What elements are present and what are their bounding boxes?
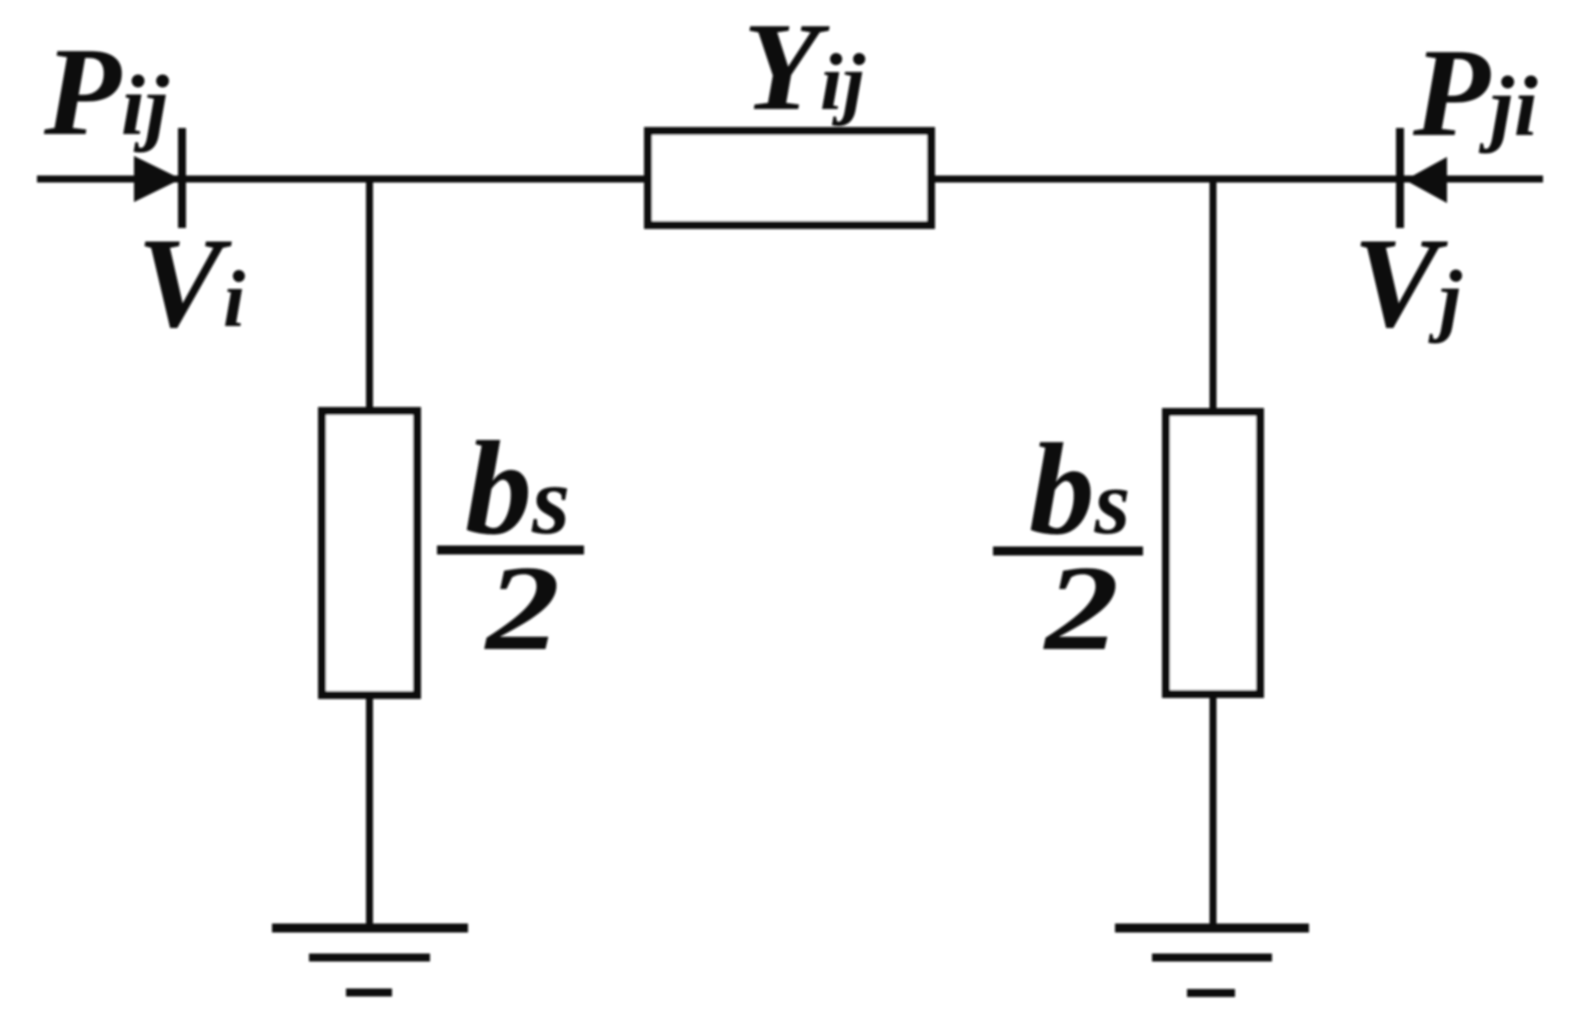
ground right <box>1115 928 1309 993</box>
wire: right shunt branch upper segment <box>1210 179 1217 412</box>
wire: left shunt branch upper segment <box>366 179 373 411</box>
capacitor bs/2 right: shunt susceptance rectangle <box>1166 412 1260 694</box>
node Vj: bus tick bar (right) <box>1396 128 1404 228</box>
admittance Yij: series branch rectangle <box>648 131 931 225</box>
wire: left shunt branch lower segment <box>366 695 373 928</box>
label bs/2 right: fraction bar <box>993 547 1143 556</box>
wire: right shunt branch lower segment <box>1210 694 1217 928</box>
wire: top horizontal line from bus i to bus j <box>37 176 1543 183</box>
node Vi: bus tick bar (left) <box>178 128 186 228</box>
svg-text:2: 2 <box>1043 541 1119 676</box>
label bs/2 left: fraction bar <box>437 546 584 555</box>
ground left <box>272 928 468 993</box>
svg-text:2: 2 <box>484 541 560 676</box>
arrow Pji: power-flow arrowhead pointing left into bus j <box>1405 157 1447 203</box>
capacitor bs/2 left: shunt susceptance rectangle <box>322 411 417 695</box>
arrow Pij: power-flow arrowhead pointing right into bus i <box>134 156 181 202</box>
